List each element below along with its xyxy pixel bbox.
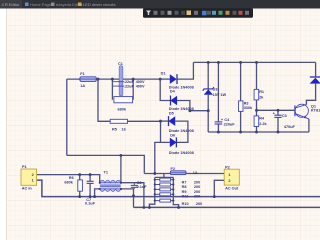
wire T1 secondary bottom left (95, 189, 100, 197)
wire Q1 emitter down (308, 119, 310, 132)
junction (240.6,62.4) (239, 61, 242, 64)
wire main top AC line (67, 78, 160, 80)
junction (173.3,179.6) (172, 179, 174, 181)
wire bottom long line (134, 206, 320, 208)
svg-text:C3: C3 (282, 114, 287, 118)
svg-text:680k: 680k (64, 181, 73, 185)
junction (90.1,174.6) (89, 173, 92, 176)
svg-text:330k: 330k (244, 106, 253, 110)
svg-text:0.1uF: 0.1uF (85, 202, 96, 206)
svg-text:R5: R5 (112, 127, 117, 131)
svg-text:R9: R9 (182, 190, 187, 194)
junction (160.5,121.1) (159, 120, 162, 123)
svg-text:1: 1 (32, 179, 34, 183)
wire C7 leads (89, 175, 91, 197)
wire R4 leads (256, 110, 258, 132)
svg-text:680k: 680k (118, 108, 127, 112)
junction (149.4,207.4) (148, 206, 151, 209)
junction (173.3,200.6) (172, 200, 174, 202)
resistor R3 (239, 101, 254, 112)
wire D1 anode lead (160, 78, 170, 80)
svg-text:P2: P2 (225, 166, 230, 170)
fuse F2 (170, 167, 198, 175)
svg-text:.22uF: .22uF (124, 85, 135, 89)
capacitor C8 (131, 181, 147, 189)
svg-text:R6: R6 (69, 176, 74, 180)
junction (154.8,179.6) (154, 179, 156, 181)
svg-text:470uF: 470uF (284, 125, 296, 129)
svg-text:400V: 400V (136, 80, 145, 84)
wire node B vertical (161, 121, 170, 142)
wire choke to fuse riser bottom (67, 155, 145, 173)
svg-text:Home Page: Home Page (30, 2, 52, 7)
junction (218.4,62.4) (217, 61, 220, 64)
resistor R9 (155, 188, 200, 194)
junction (278,132) (277, 131, 280, 134)
fuse F1 (80, 72, 96, 88)
svg-text:200: 200 (194, 190, 200, 194)
junction (133.5,195.8) (132, 194, 135, 197)
resistor R11 (155, 193, 200, 199)
resistor 680k bleeder (114, 97, 133, 112)
svg-text:200: 200 (194, 180, 200, 184)
svg-text:T1: T1 (104, 171, 108, 175)
connector P1 (21, 165, 37, 191)
junction (79.7,174.6) (78, 173, 81, 176)
wire R3 leads (240, 62, 242, 132)
resistor R6 (64, 176, 82, 191)
junction (154.8,194.3) (154, 193, 156, 195)
wire D5 cathode lead (161, 120, 169, 122)
svg-text:2: 2 (32, 173, 34, 177)
wire P2 pin2 jog (214, 180, 224, 196)
svg-text:1A: 1A (80, 84, 85, 88)
svg-text:D1: D1 (161, 71, 166, 75)
wire bank right rail bottom jog (173, 202, 178, 207)
wire R1 leads (256, 62, 258, 110)
junction (173.3,194.3) (172, 193, 174, 195)
junction (208.2,62.4) (207, 61, 210, 64)
wire C3 leads (277, 110, 279, 132)
svg-text:0.1uF: 0.1uF (137, 185, 148, 189)
svg-text:C1: C1 (118, 62, 123, 66)
wire R5 to bridge node B (128, 120, 161, 122)
wire R5 feed riser (98, 79, 110, 121)
transistor Q1 (295, 104, 320, 119)
diode D2 (310, 77, 320, 84)
svg-text:R11: R11 (182, 195, 189, 199)
wire T1 top right riser (120, 155, 122, 182)
wire R6 leads (79, 175, 81, 197)
junction (173.3,189.4) (172, 188, 174, 190)
wire top DC+ rail (193, 61, 315, 63)
wire bank left rail bottom jog (149, 202, 154, 207)
svg-text:R8: R8 (182, 185, 187, 189)
junction (79.7,196.6) (78, 195, 81, 198)
wire C8 bottom horizontal (121, 189, 134, 208)
sheet left margin (0, 9, 7, 240)
junction (256.5,110.3) (255, 109, 258, 112)
junction (178.6,207.4) (177, 206, 180, 209)
svg-text:KT81: KT81 (311, 108, 320, 112)
wire F1 left riser (66, 79, 68, 155)
junction node dots (78, 61, 279, 209)
svg-text:R4: R4 (259, 117, 265, 121)
junction (256.5,132) (255, 131, 258, 134)
wire DC- junction to zener lead (190, 110, 208, 112)
diode D6 (169, 133, 194, 155)
wire bank rails (155, 177, 174, 202)
capacitor C4 (215, 118, 236, 127)
browser tab bar (0, 0, 320, 9)
svg-text:R7: R7 (182, 180, 187, 184)
resistor R4 (254, 116, 267, 127)
svg-text:D3: D3 (213, 88, 218, 92)
wire P1 pin2 line (37, 175, 100, 183)
wire D1 cathode to top rail (177, 62, 193, 79)
wire Q1 collector to D2 (306, 84, 315, 105)
junction (154.8,189.4) (154, 188, 156, 190)
connector P2 (224, 166, 239, 191)
capacitor C7 (85, 181, 96, 205)
diode D1 (161, 71, 194, 89)
junction (154.8,200.6) (154, 200, 156, 202)
junction (240.6,132) (239, 131, 242, 134)
svg-text:P1: P1 (22, 165, 27, 169)
svg-text:LED driver circuits: LED driver circuits (83, 2, 115, 7)
zener D3 (203, 87, 227, 97)
junction (278,110.3) (277, 109, 280, 112)
wire T1 top-right horizontal to riser (121, 183, 144, 208)
capacitor C1 (two X-caps, vertical pill symbol) (112, 62, 145, 100)
wire D4 anode to DC- junction (177, 101, 190, 111)
junction (218.4,132) (217, 131, 220, 134)
wire base line to Q1 (257, 109, 295, 111)
resistor R7 (155, 178, 200, 184)
svg-text:D4: D4 (170, 89, 176, 93)
svg-text:R1: R1 (259, 90, 264, 94)
junction (98,79.1) (97, 78, 100, 81)
wire D2 cathode to top rail (315, 62, 317, 77)
diode D4 (169, 89, 194, 111)
resistor R1 (254, 89, 264, 100)
svg-text:.22uF: .22uF (124, 80, 135, 84)
wire D5 anode staple to D6 cathode (175, 121, 188, 142)
wire bank feed stub (163, 174, 165, 178)
svg-text:D5: D5 (169, 111, 174, 115)
wire F2 line (144, 173, 224, 175)
resistor R8 (155, 183, 200, 189)
junction (189.9,110.7) (188, 109, 191, 112)
capacitor C3 (273, 112, 296, 130)
svg-text:F1: F1 (80, 72, 84, 76)
svg-text:Diode 1N4008: Diode 1N4008 (169, 129, 194, 133)
resistor R5 (110, 119, 127, 131)
junction (154.8,184.5) (154, 183, 156, 185)
junction (112.4,79.1) (111, 78, 114, 81)
svg-text:200: 200 (194, 195, 200, 199)
svg-text:400V: 400V (136, 85, 145, 89)
svg-text:1: 1 (228, 173, 230, 177)
svg-text:C4: C4 (224, 118, 230, 122)
svg-text:200: 200 (194, 185, 200, 189)
transformer T1 (99, 171, 122, 192)
svg-text:R3: R3 (244, 101, 249, 105)
svg-text:F2: F2 (171, 167, 175, 171)
wire bridge left rail D1-D4 (160, 79, 170, 100)
svg-text:4 R Editor: 4 R Editor (2, 2, 20, 7)
svg-text:200: 200 (196, 202, 202, 206)
svg-text:15V 1W: 15V 1W (213, 93, 227, 97)
svg-text:2k: 2k (259, 95, 264, 99)
svg-text:2.2k: 2.2k (259, 122, 267, 126)
svg-text:16: 16 (122, 127, 126, 131)
junction (214.3,196.6) (213, 195, 216, 198)
resistor R10 (155, 199, 202, 206)
svg-text:AC Out: AC Out (225, 187, 239, 191)
junction (256.5,62.4) (255, 61, 258, 64)
svg-text:AC In: AC In (22, 187, 33, 191)
svg-text:D6: D6 (170, 133, 175, 137)
wire zener D3 leads (207, 62, 209, 132)
svg-text:1A: 1A (193, 171, 198, 175)
wire bottom DC- rail (208, 131, 309, 133)
junction (133.2,79.1) (132, 78, 135, 81)
svg-text:R10: R10 (182, 202, 189, 206)
junction (208.2,110.7) (207, 109, 210, 112)
junction (154.8,173.5) (153, 172, 156, 175)
floating toolbar (143, 8, 253, 17)
junction (90.1,196.6) (89, 195, 92, 198)
wire C4 leads (217, 62, 219, 132)
wire P1 pin1 to neutral (37, 180, 320, 197)
svg-text:2: 2 (228, 179, 230, 183)
junction (160.2,79.1) (159, 78, 162, 81)
junction (143.9,207.4) (142, 206, 145, 209)
svg-text:220uF: 220uF (224, 123, 236, 127)
junction (120.9,155.4) (119, 154, 122, 157)
svg-text:Diode 1N4008: Diode 1N4008 (169, 151, 194, 155)
junction (173.3,184.5) (172, 183, 174, 185)
diode D5 (168, 111, 193, 133)
wire bridge AC2 rail to F2 node (155, 142, 161, 173)
junction (94.6,196.6) (93, 195, 96, 198)
